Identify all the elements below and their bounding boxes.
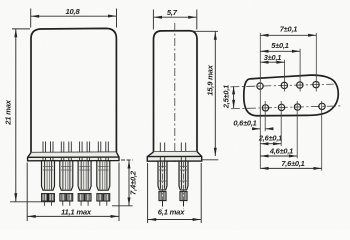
- dimension 10,8 width of front view: [31, 9, 117, 28]
- dimension 15,9 max body height: [190, 31, 218, 160]
- side view pin stubs above flange: [160, 143, 185, 152]
- dimension 7,4±0,2 pin length: [112, 160, 133, 206]
- side view pin wires crossing flange rim: [160, 157, 185, 161]
- bottom view outline: [243, 74, 339, 117]
- side view centerline: [174, 23, 176, 162]
- dimension 3±0,1: [260, 61, 284, 63]
- front view flange: [28, 152, 119, 161]
- dimension 5,7 width of side view: [153, 10, 196, 30]
- dimension 11,1 max flange width: [27, 163, 119, 222]
- dimension 0,6±0,1 row offset: [252, 128, 273, 130]
- front view pins group 1: [42, 161, 55, 206]
- side view relay body: [154, 31, 198, 152]
- front view relay body: [31, 28, 116, 152]
- bottom view row centerline top: [230, 84, 333, 87]
- bottom view group: [230, 74, 340, 117]
- dimension 7±0,1: [260, 34, 316, 36]
- bottom view holes bottom row: [262, 103, 325, 111]
- dimension 2,6±0,1: [260, 143, 281, 145]
- front view pins group 3: [78, 161, 91, 206]
- dimension 5±0,1: [260, 50, 300, 52]
- side view flange: [147, 152, 201, 162]
- front view pins group 2: [60, 161, 73, 206]
- dimension 7,6±0,1: [260, 167, 321, 169]
- front view pin wires crossing flange rim: [43, 157, 108, 160]
- side view pin row B: [179, 161, 188, 208]
- dimension 2,5±0,1 row spacing: [233, 86, 235, 108]
- front view pins group 4: [97, 161, 110, 206]
- front view pin stubs above flange: [43, 142, 108, 153]
- hole centermark verticals: [260, 33, 321, 171]
- dimension 21 max height of front view: [10, 29, 55, 202]
- bottom view row centerline bottom: [231, 106, 340, 109]
- side view pin row A: [158, 161, 167, 208]
- dimension 4,6±0,1: [260, 155, 297, 157]
- dimension 6,1 max flange width side: [148, 163, 202, 223]
- bottom view holes top row: [257, 81, 320, 89]
